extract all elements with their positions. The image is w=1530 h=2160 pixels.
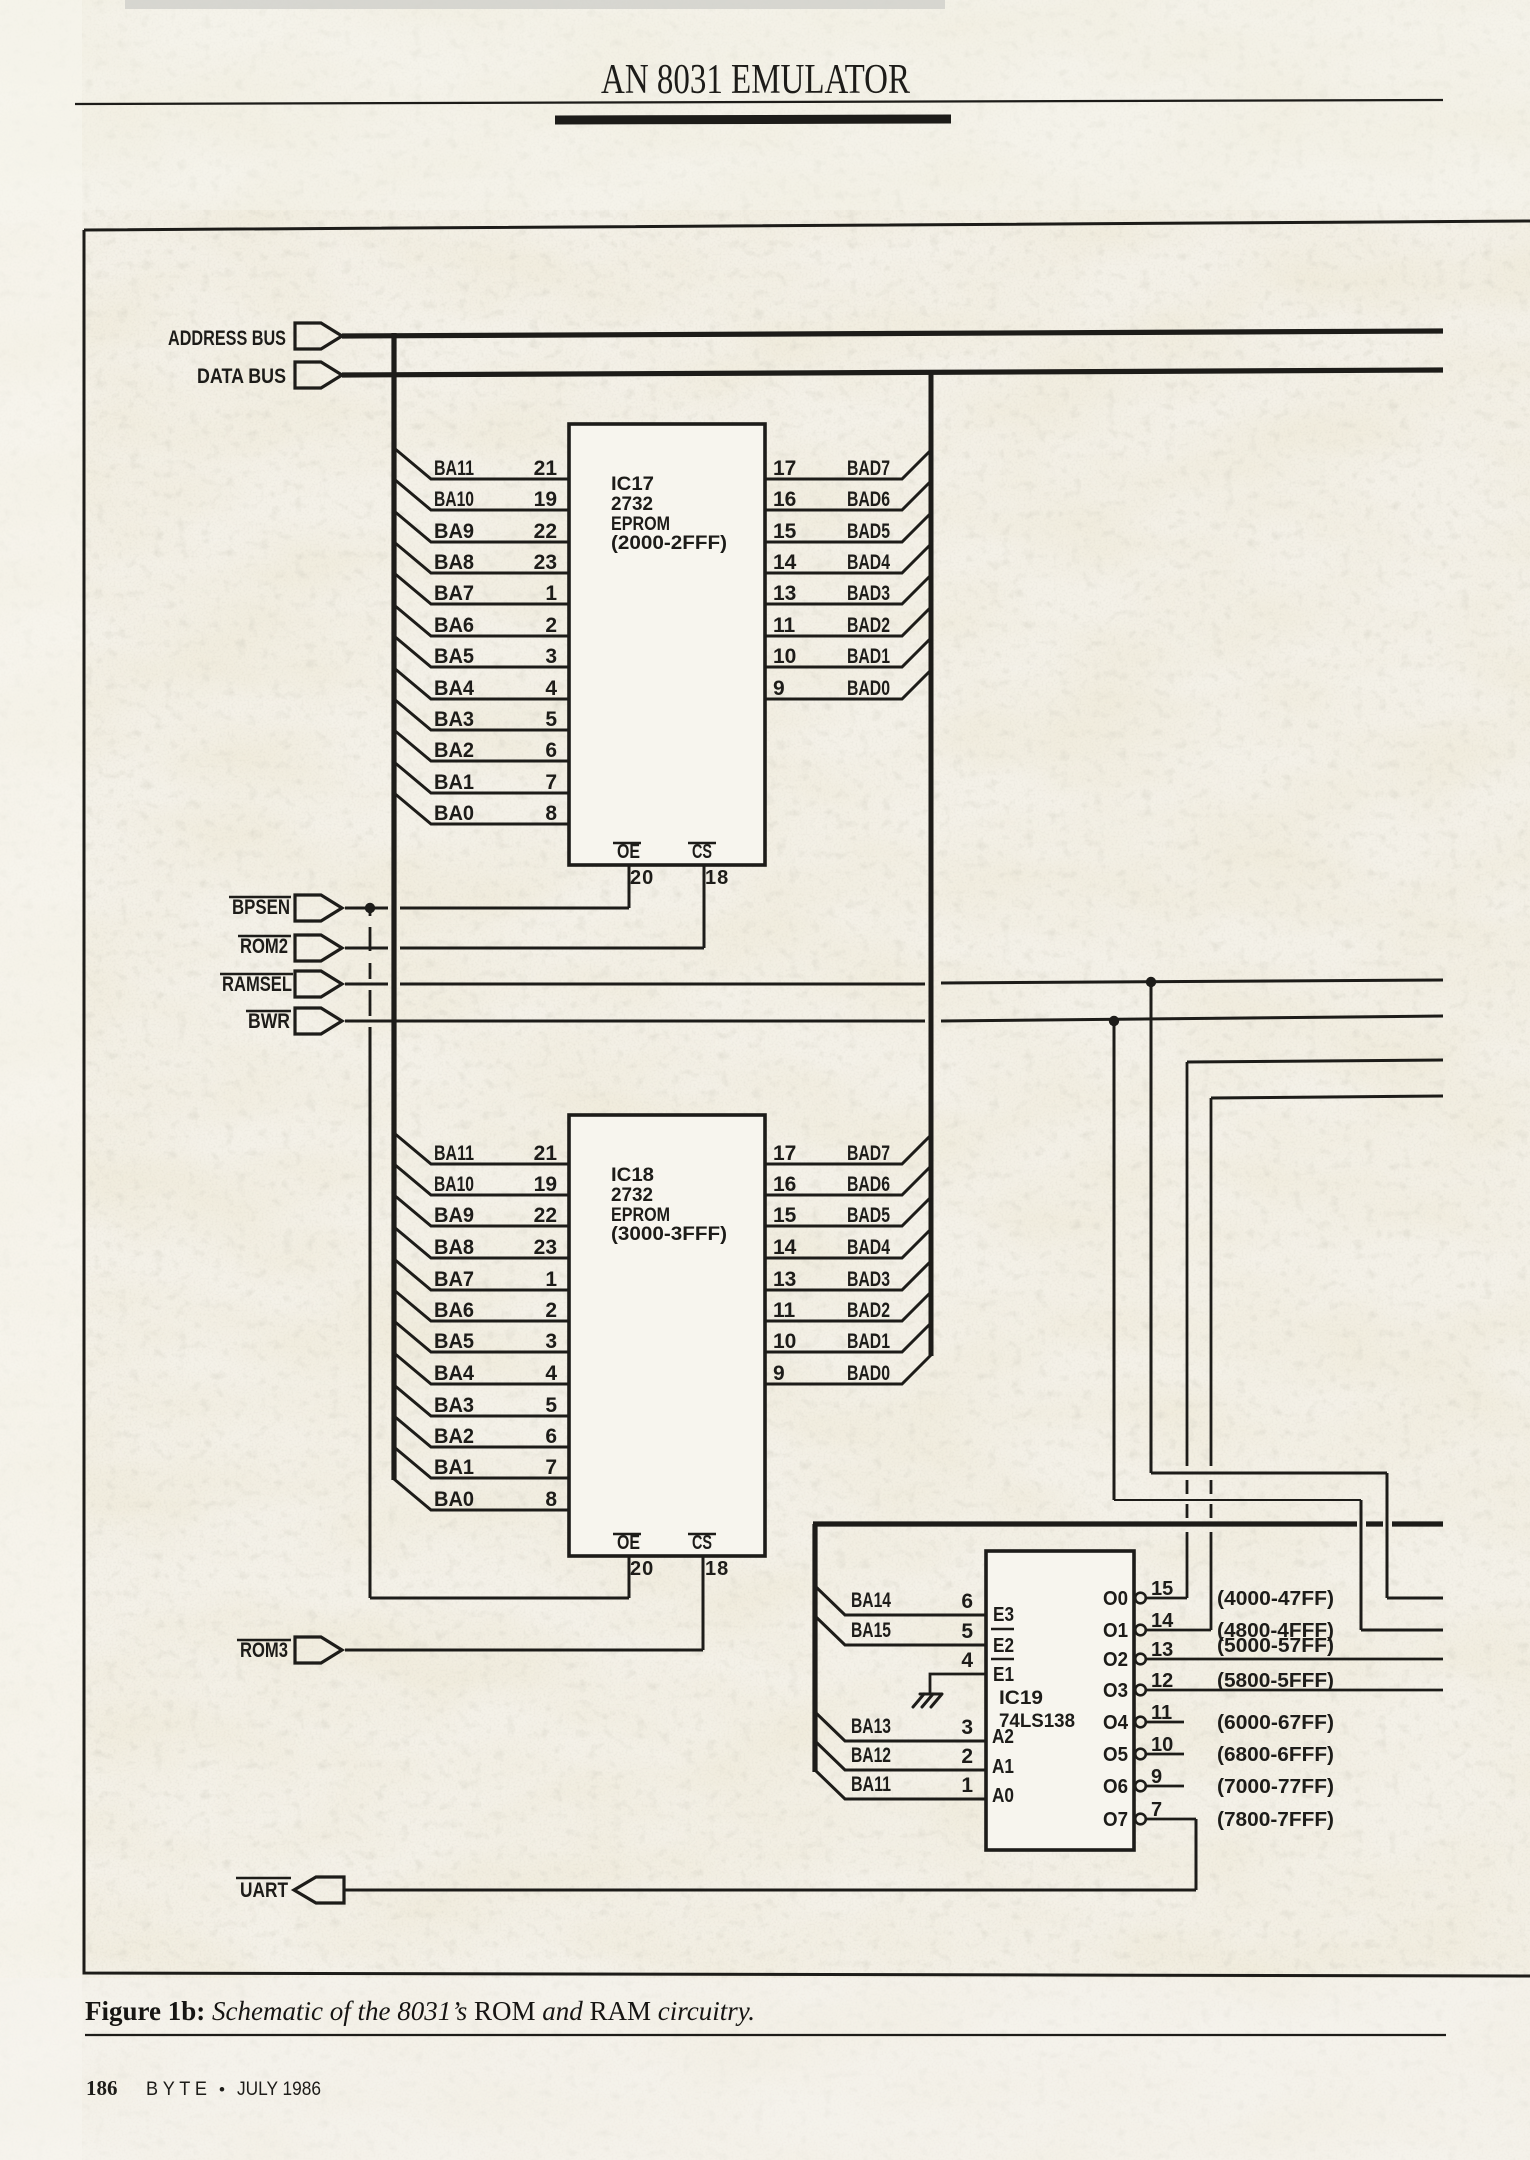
- wire input BA2 to IC18 pin 6: [394, 1416, 569, 1447]
- wire ADDRESS BUS (thick): [342, 331, 1443, 336]
- svg-text:EPROM: EPROM: [611, 514, 670, 535]
- wire input BA12 to IC19 pin 2: [815, 1741, 986, 1770]
- svg-text:15: 15: [773, 520, 797, 543]
- svg-text:Figure 1b: Schematic of the 80: Figure 1b: Schematic of the 8031’s ROM a…: [85, 1996, 755, 2026]
- wire O0 exit right y1062: [1187, 1060, 1443, 1062]
- wire output O3 pin 12: [1146, 1689, 1443, 1692]
- wire output O7 pin 7: [1146, 1818, 1196, 1821]
- wire output BAD2 from IC18 pin 11: [765, 1292, 931, 1321]
- wire input BA11 to IC17 pin 21: [394, 448, 569, 479]
- svg-text:B Y T E: B Y T E: [146, 2079, 207, 2100]
- decoder IC19 74LS138 box: [986, 1551, 1134, 1850]
- wire input BA11 to IC18 pin 21: [394, 1133, 569, 1164]
- svg-text:2: 2: [961, 1745, 973, 1768]
- wire input BA3 to IC17 pin 5: [394, 699, 569, 730]
- wire ROM3 to IC18 CS: [345, 1649, 703, 1652]
- svg-text:BAD0: BAD0: [847, 677, 890, 700]
- svg-text:BAD3: BAD3: [847, 1268, 890, 1291]
- svg-text:O3: O3: [1103, 1680, 1128, 1702]
- svg-text:186: 186: [86, 2076, 118, 2100]
- svg-text:BAD2: BAD2: [847, 1299, 890, 1322]
- svg-text:DATA BUS: DATA BUS: [197, 365, 286, 388]
- signal-entry arrow BWR: [295, 1008, 342, 1034]
- wire UART line: [345, 1889, 1196, 1892]
- svg-text:(5000-57FF): (5000-57FF): [1217, 1635, 1334, 1657]
- wire input BA14 to IC19 pin 6: [815, 1586, 986, 1615]
- svg-text:13: 13: [773, 582, 796, 605]
- wire output BAD0 from IC18 pin 9: [765, 1355, 931, 1384]
- svg-text:O2: O2: [1103, 1649, 1128, 1671]
- svg-text:(6000-67FF): (6000-67FF): [1217, 1712, 1334, 1734]
- svg-text:BAD4: BAD4: [847, 551, 890, 574]
- svg-text:7: 7: [1151, 1799, 1162, 1821]
- svg-text:22: 22: [534, 1204, 557, 1227]
- wire input BA3 to IC18 pin 5: [394, 1385, 569, 1416]
- svg-text:20: 20: [630, 867, 654, 889]
- pin circle O3: [1135, 1685, 1146, 1696]
- svg-text:BA11: BA11: [434, 1142, 474, 1165]
- bus-entry arrow ADDRESS BUS: [295, 323, 342, 349]
- svg-text:•: •: [219, 2080, 226, 2099]
- svg-text:13: 13: [773, 1268, 796, 1291]
- signal-entry arrow RAMSEL: [295, 971, 342, 997]
- wire O1 riser x1211 (dashed at crossings): [1210, 1098, 1213, 1466]
- svg-text:CS: CS: [692, 1532, 712, 1554]
- wire ROM2 left segment: [345, 947, 388, 950]
- wire BWR jog horizontal y1500 (thin): [1114, 1499, 1361, 1501]
- svg-text:7: 7: [545, 1456, 557, 1479]
- wire BPSEN drop (dashed crossing): [369, 908, 372, 916]
- svg-text:10: 10: [773, 1330, 796, 1353]
- wire BWR seg1: [345, 1020, 925, 1023]
- wire input BA7 to IC17 pin 1: [394, 573, 569, 604]
- wire RAMSEL seg3 to right edge: [941, 980, 1443, 983]
- svg-text:BA13: BA13: [851, 1715, 891, 1738]
- svg-text:15: 15: [1151, 1578, 1173, 1600]
- svg-text:14: 14: [1151, 1610, 1174, 1632]
- svg-text:(7800-7FFF): (7800-7FFF): [1217, 1809, 1334, 1831]
- wire output BAD6 from IC18 pin 16: [765, 1166, 931, 1195]
- wire input BA0 to IC18 pin 8: [394, 1479, 569, 1510]
- ground (chassis) at IC19 E1: [913, 1694, 942, 1707]
- svg-text:13: 13: [1151, 1639, 1173, 1661]
- svg-text:12: 12: [1151, 1670, 1173, 1692]
- svg-text:ROM2: ROM2: [240, 935, 288, 958]
- wire DATA BUS (thick): [342, 370, 1443, 375]
- wire output O4 pin 11: [1146, 1721, 1184, 1724]
- wire input BA8 to IC18 pin 23: [394, 1227, 569, 1258]
- signal-entry arrow BPSEN: [295, 895, 342, 921]
- svg-text:9: 9: [773, 677, 785, 700]
- wire RAMSEL seg1: [345, 983, 388, 986]
- IC IC18 2732 EPROM box: [569, 1115, 765, 1556]
- pin circle O1: [1135, 1625, 1146, 1636]
- wire input BA6 to IC17 pin 2: [394, 605, 569, 636]
- wire input BA1 to IC18 pin 7: [394, 1447, 569, 1478]
- wire BPSEN left segment: [345, 907, 388, 910]
- svg-text:(5800-5FFF): (5800-5FFF): [1217, 1670, 1334, 1692]
- wire output BAD3 from IC17 pin 13: [765, 575, 931, 604]
- svg-text:BA6: BA6: [434, 614, 474, 637]
- svg-text:11: 11: [1151, 1702, 1172, 1724]
- svg-text:ADDRESS BUS: ADDRESS BUS: [168, 327, 286, 350]
- pin circle O5: [1135, 1749, 1146, 1760]
- wire input BA7 to IC18 pin 1: [394, 1259, 569, 1290]
- svg-text:BWR: BWR: [248, 1010, 290, 1033]
- wire BPSEN vertical down to IC18 OE route: [369, 1027, 372, 1598]
- wire BWR exit right y1630: [1361, 1629, 1443, 1632]
- wire output O1 pin 14: [1146, 1629, 1211, 1632]
- wire input BA6 to IC18 pin 2: [394, 1290, 569, 1321]
- svg-text:BA8: BA8: [434, 551, 474, 574]
- wire RAMSEL vertical x1387: [1386, 1473, 1389, 1598]
- svg-text:BA2: BA2: [434, 739, 474, 762]
- svg-text:16: 16: [773, 488, 796, 511]
- svg-text:BA9: BA9: [434, 1204, 474, 1227]
- wire output BAD2 from IC17 pin 11: [765, 607, 931, 636]
- svg-text:BA2: BA2: [434, 1425, 474, 1448]
- svg-text:5: 5: [545, 708, 557, 731]
- wire IC17 CS pin18 down to ROM2: [703, 865, 706, 948]
- svg-text:BAD7: BAD7: [847, 457, 890, 480]
- pin circle O7: [1135, 1814, 1146, 1825]
- svg-text:O1: O1: [1103, 1620, 1128, 1642]
- wire input BA5 to IC17 pin 3: [394, 636, 569, 667]
- wire input BA2 to IC17 pin 6: [394, 730, 569, 761]
- svg-text:BA4: BA4: [434, 677, 474, 700]
- signal-entry arrow ROM2: [295, 935, 342, 961]
- svg-text:A1: A1: [992, 1756, 1014, 1778]
- wire output O5 pin 10: [1146, 1753, 1184, 1756]
- figure frame: [84, 221, 1530, 1976]
- wire IC18 OE to BPSEN vertical: [370, 1597, 629, 1600]
- bus-entry arrow DATA BUS: [295, 362, 342, 388]
- wire output BAD7 from IC17 pin 17: [765, 450, 931, 479]
- svg-text:21: 21: [534, 1142, 558, 1165]
- svg-text:6: 6: [545, 1425, 557, 1448]
- svg-text:BA9: BA9: [434, 520, 474, 543]
- svg-text:BA12: BA12: [851, 1744, 891, 1767]
- svg-text:14: 14: [773, 551, 797, 574]
- svg-text:BA0: BA0: [434, 1488, 474, 1511]
- wire IC19 E1 pin 4 to ground: [930, 1674, 986, 1694]
- wire input BA1 to IC17 pin 7: [394, 762, 569, 793]
- wire output BAD4 from IC18 pin 14: [765, 1229, 931, 1258]
- svg-text:ROM3: ROM3: [240, 1639, 288, 1662]
- svg-text:IC17: IC17: [611, 474, 654, 495]
- wire input BA15 to IC19 pin 5: [815, 1616, 986, 1645]
- wire output BAD4 from IC17 pin 14: [765, 544, 931, 573]
- svg-text:23: 23: [534, 551, 557, 574]
- wire RAMSEL jog horizontal y1473: [1151, 1472, 1387, 1475]
- svg-text:E3: E3: [993, 1604, 1014, 1626]
- svg-text:BAD6: BAD6: [847, 1173, 890, 1196]
- svg-text:9: 9: [773, 1362, 785, 1385]
- svg-text:20: 20: [630, 1558, 654, 1580]
- wire output BAD7 from IC18 pin 17: [765, 1135, 931, 1164]
- svg-text:BA5: BA5: [434, 645, 474, 668]
- svg-text:18: 18: [705, 1558, 729, 1580]
- svg-text:BA6: BA6: [434, 1299, 474, 1322]
- svg-text:14: 14: [773, 1236, 797, 1259]
- wire BWR vertical x1361: [1360, 1500, 1363, 1630]
- svg-text:(3000-3FFF): (3000-3FFF): [611, 1224, 727, 1245]
- wire BPSEN to IC17 OE: [400, 907, 629, 910]
- svg-text:BAD4: BAD4: [847, 1236, 890, 1259]
- wire output BAD3 from IC18 pin 13: [765, 1261, 931, 1290]
- wire output BAD1 from IC18 pin 10: [765, 1323, 931, 1352]
- caption rule: [85, 2034, 1446, 2036]
- wire O0 riser x1187 (dashed at crossings): [1186, 1062, 1189, 1466]
- svg-text:2732: 2732: [611, 494, 653, 515]
- wire input BA4 to IC18 pin 4: [394, 1353, 569, 1384]
- wire input BA8 to IC17 pin 23: [394, 542, 569, 573]
- wire output BAD6 from IC17 pin 16: [765, 481, 931, 510]
- wire output O6 pin 9: [1146, 1785, 1184, 1788]
- wire BWR vertical drop x1114: [1113, 1021, 1116, 1500]
- svg-text:(2000-2FFF): (2000-2FFF): [611, 533, 727, 554]
- svg-text:23: 23: [534, 1236, 557, 1259]
- svg-text:3: 3: [961, 1716, 973, 1739]
- wire IC17 OE pin20 down to BPSEN: [628, 865, 631, 908]
- svg-text:JULY 1986: JULY 1986: [237, 2079, 321, 2100]
- svg-text:18: 18: [705, 867, 729, 889]
- svg-text:3: 3: [545, 1330, 557, 1353]
- svg-text:BA7: BA7: [434, 1268, 474, 1291]
- wire address-bus vertical drop x394: [391, 333, 396, 1480]
- pin circle O0: [1135, 1593, 1146, 1604]
- junction BPSEN: [365, 903, 375, 913]
- wire input BA0 to IC17 pin 8: [394, 793, 569, 824]
- wire IC18 CS pin18 down to ROM3: [702, 1556, 705, 1650]
- svg-text:8: 8: [545, 802, 557, 825]
- wire data-bus vertical drop x931: [929, 372, 934, 1356]
- svg-text:17: 17: [773, 457, 796, 480]
- svg-text:2: 2: [545, 1299, 557, 1322]
- pin circle O4: [1135, 1717, 1146, 1728]
- wire input BA11 to IC19 pin 1: [815, 1770, 986, 1799]
- svg-text:BA5: BA5: [434, 1330, 474, 1353]
- wire IC19 input bus vertical x815: [812, 1524, 817, 1772]
- svg-text:11: 11: [773, 614, 796, 637]
- svg-text:BAD0: BAD0: [847, 1362, 890, 1385]
- svg-text:BA1: BA1: [434, 1456, 474, 1479]
- svg-text:BA10: BA10: [434, 1173, 474, 1196]
- svg-text:OE: OE: [617, 1532, 640, 1554]
- svg-text:19: 19: [534, 1173, 557, 1196]
- svg-text:UART: UART: [240, 1879, 288, 1902]
- wire RAMSEL exit right y1598: [1387, 1597, 1443, 1600]
- svg-text:10: 10: [773, 645, 796, 668]
- svg-text:BA14: BA14: [851, 1589, 891, 1612]
- svg-text:1: 1: [545, 582, 557, 605]
- wire output O2 pin 13: [1146, 1658, 1443, 1661]
- svg-text:9: 9: [1151, 1766, 1162, 1788]
- svg-text:5: 5: [961, 1620, 973, 1643]
- svg-text:BAD2: BAD2: [847, 614, 890, 637]
- svg-text:17: 17: [773, 1142, 796, 1165]
- header thick bar: [555, 119, 951, 120]
- svg-text:6: 6: [961, 1590, 973, 1613]
- svg-text:IC18: IC18: [611, 1165, 654, 1186]
- svg-text:EPROM: EPROM: [611, 1205, 670, 1226]
- svg-text:BA8: BA8: [434, 1236, 474, 1259]
- junction BWR: [1109, 1016, 1119, 1026]
- wire BWR seg2 to right edge: [941, 1016, 1443, 1021]
- svg-text:10: 10: [1151, 1734, 1173, 1756]
- svg-text:19: 19: [534, 488, 557, 511]
- wire input BA9 to IC17 pin 22: [394, 511, 569, 542]
- wire RAMSEL seg2: [400, 983, 925, 986]
- svg-text:BAD5: BAD5: [847, 1204, 890, 1227]
- svg-text:BAD1: BAD1: [847, 645, 890, 668]
- svg-text:4: 4: [545, 677, 557, 700]
- svg-text:E1: E1: [993, 1664, 1014, 1686]
- svg-text:BA10: BA10: [434, 488, 474, 511]
- wire input BA10 to IC17 pin 19: [394, 479, 569, 510]
- signal-entry arrow ROM3: [295, 1637, 342, 1663]
- svg-text:A0: A0: [992, 1785, 1014, 1807]
- svg-text:A2: A2: [992, 1726, 1014, 1748]
- wire output O0 pin 15: [1146, 1597, 1187, 1600]
- svg-text:IC19: IC19: [999, 1688, 1043, 1709]
- svg-text:7: 7: [545, 771, 557, 794]
- svg-text:BPSEN: BPSEN: [232, 896, 290, 919]
- wire address bus segment into IC19 area (thick, with crossing gaps): [813, 1521, 1357, 1526]
- svg-text:(7000-77FF): (7000-77FF): [1217, 1776, 1334, 1798]
- wire output BAD5 from IC18 pin 15: [765, 1197, 931, 1226]
- svg-text:8: 8: [545, 1488, 557, 1511]
- wire IC18 OE pin20 down: [628, 1556, 631, 1598]
- svg-text:BA0: BA0: [434, 802, 474, 825]
- wire input BA13 to IC19 pin 3: [815, 1712, 986, 1741]
- svg-text:BAD5: BAD5: [847, 520, 890, 543]
- svg-text:O4: O4: [1103, 1712, 1129, 1734]
- wire input BA5 to IC18 pin 3: [394, 1321, 569, 1352]
- wire O7 down to UART line: [1195, 1819, 1198, 1890]
- svg-text:RAMSEL: RAMSEL: [222, 973, 292, 996]
- svg-text:15: 15: [773, 1204, 797, 1227]
- wire output BAD0 from IC17 pin 9: [765, 670, 931, 699]
- svg-text:BAD3: BAD3: [847, 582, 890, 605]
- svg-text:BAD7: BAD7: [847, 1142, 890, 1165]
- wire ROM2 to IC17 CS: [400, 947, 704, 950]
- svg-text:11: 11: [773, 1299, 796, 1322]
- IC IC17 2732 EPROM box: [569, 424, 765, 865]
- wire RAMSEL vertical drop x1151: [1150, 982, 1153, 1473]
- pin circle O2: [1135, 1654, 1146, 1665]
- svg-text:4: 4: [961, 1649, 973, 1672]
- svg-text:BA3: BA3: [434, 708, 474, 731]
- svg-text:BA11: BA11: [851, 1773, 891, 1796]
- svg-text:21: 21: [534, 457, 558, 480]
- svg-text:(4000-47FF): (4000-47FF): [1217, 1588, 1334, 1610]
- wire output BAD1 from IC17 pin 10: [765, 638, 931, 667]
- svg-text:BAD1: BAD1: [847, 1330, 890, 1353]
- svg-text:BA1: BA1: [434, 771, 474, 794]
- svg-text:BA15: BA15: [851, 1619, 891, 1642]
- svg-text:O6: O6: [1103, 1776, 1128, 1798]
- wire output BAD5 from IC17 pin 15: [765, 513, 931, 542]
- svg-text:2: 2: [545, 614, 557, 637]
- pin circle O6: [1135, 1781, 1146, 1792]
- svg-text:E2: E2: [993, 1635, 1014, 1657]
- svg-text:(6800-6FFF): (6800-6FFF): [1217, 1744, 1334, 1766]
- svg-text:6: 6: [545, 739, 557, 762]
- svg-text:BA4: BA4: [434, 1362, 474, 1385]
- svg-text:BA3: BA3: [434, 1394, 474, 1417]
- svg-text:2732: 2732: [611, 1185, 653, 1206]
- junction RAMSEL: [1146, 977, 1156, 987]
- svg-text:4: 4: [545, 1362, 557, 1385]
- svg-text:BA7: BA7: [434, 582, 474, 605]
- svg-text:16: 16: [773, 1173, 796, 1196]
- wire input BA9 to IC18 pin 22: [394, 1195, 569, 1226]
- svg-text:3: 3: [545, 645, 557, 668]
- signal-exit arrow UART: [294, 1877, 344, 1903]
- svg-text:22: 22: [534, 520, 557, 543]
- svg-text:BA11: BA11: [434, 457, 474, 480]
- svg-text:AN 8031 EMULATOR: AN 8031 EMULATOR: [601, 57, 910, 103]
- wire input BA4 to IC17 pin 4: [394, 668, 569, 699]
- wire O1 exit right y1098: [1211, 1096, 1443, 1098]
- svg-text:O0: O0: [1103, 1588, 1128, 1610]
- svg-text:O5: O5: [1103, 1744, 1128, 1766]
- header rule: [75, 100, 1443, 104]
- svg-text:1: 1: [545, 1268, 557, 1291]
- wire input BA10 to IC18 pin 19: [394, 1164, 569, 1195]
- svg-text:1: 1: [961, 1774, 973, 1797]
- svg-text:BAD6: BAD6: [847, 488, 890, 511]
- svg-text:5: 5: [545, 1394, 557, 1417]
- svg-text:O7: O7: [1103, 1809, 1128, 1831]
